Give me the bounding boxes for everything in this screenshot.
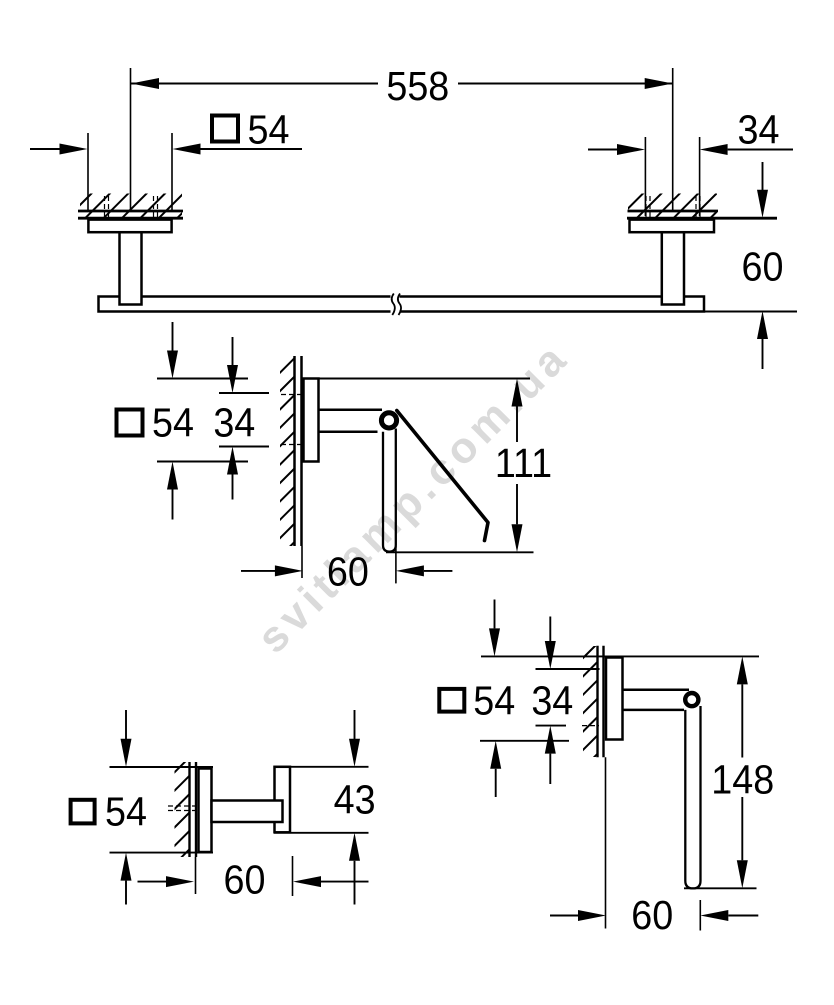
down arrow right (354, 710, 356, 739)
towel bar (99, 297, 705, 312)
cover diagonal (397, 411, 488, 541)
dim 558 extension line right (672, 68, 674, 211)
ref line top left (110, 766, 214, 768)
stem (212, 801, 283, 823)
arm top line (623, 689, 690, 692)
ref line top right (111 top) (318, 378, 530, 380)
up arrow 34 (545, 726, 556, 754)
dim 60 (138, 881, 167, 883)
svg-text:60: 60 (631, 893, 673, 939)
wall hatching (280, 356, 295, 546)
right post (662, 232, 684, 304)
wall extension down (301, 546, 303, 578)
square symbol 54 hook (71, 800, 95, 824)
bar break symbol (391, 294, 402, 316)
left post (120, 232, 142, 304)
dim 558 left arrowhead (131, 78, 159, 89)
roll holder bar (383, 429, 396, 552)
ref line top left (157, 378, 248, 380)
dim 54 vertical (172, 322, 174, 351)
wall line outer (596, 646, 598, 758)
svg-text:54: 54 (473, 678, 515, 724)
wall hatching left (80, 194, 182, 218)
hook right edge extension (292, 856, 294, 896)
svg-text:54: 54 (152, 400, 194, 446)
dim 34 vertical (232, 337, 234, 366)
wall hatching right (628, 194, 717, 218)
bar bottom extension to 60 dim (704, 311, 797, 313)
wall screw dashes left (104, 196, 106, 223)
svg-text:43: 43 (334, 777, 376, 823)
wall line inner (195, 762, 197, 857)
wall hatching (583, 646, 598, 757)
dim 34 right: tails + arrowheads (588, 149, 617, 151)
svg-text:54: 54 (105, 789, 147, 835)
ref line bottom (684, 887, 757, 889)
left wall plate (88, 220, 171, 233)
dim 60 (241, 570, 275, 572)
ref line top (481, 655, 759, 657)
arm bottom line (318, 431, 378, 434)
svg-text:34: 34 (213, 400, 255, 446)
dim 54 extension lines (87, 133, 89, 211)
screw hidden dashes (281, 394, 303, 396)
pivot ring (685, 693, 698, 706)
arm bottom line (623, 709, 685, 712)
svg-text:148: 148 (711, 757, 774, 803)
square symbol 54 middle (117, 410, 143, 436)
bar extension down (395, 547, 397, 584)
up arrow 54 (490, 741, 501, 769)
dim 60 right vertical (762, 162, 764, 190)
wall plate (606, 658, 623, 740)
dim 148 vertical (737, 656, 748, 684)
ref line 34 top (536, 668, 600, 670)
wall extension below hook (195, 857, 197, 894)
wall line inner (602, 646, 604, 758)
wall plate (304, 379, 319, 462)
ref line top right (274, 766, 369, 768)
svg-text:60: 60 (742, 244, 784, 290)
svg-text:34: 34 (531, 678, 573, 724)
down arrow 54 (494, 600, 496, 629)
right wall plate (630, 220, 715, 233)
hook body (275, 767, 291, 833)
dim 558 line (131, 83, 378, 85)
dim 60 (550, 915, 579, 917)
svg-text:111: 111 (495, 441, 552, 487)
ref line 111 bottom (386, 551, 534, 553)
svg-text:60: 60 (327, 549, 369, 595)
ref line 34 top (219, 392, 269, 394)
dim 54 left: tail + arrowheads (30, 148, 60, 150)
up arrow right (349, 833, 360, 861)
wall hatching (175, 762, 190, 857)
ref line bottom right (274, 832, 369, 834)
ref line 34 bottom (219, 446, 269, 448)
svg-text:558: 558 (386, 64, 449, 110)
ref line bottom left (110, 852, 214, 854)
up arrow left (121, 853, 132, 881)
wall line left lower (78, 217, 183, 220)
dim 111 vertical (512, 379, 523, 407)
wall line inner (300, 356, 303, 546)
roll holder bar (685, 706, 700, 888)
screw hidden dashes (168, 805, 197, 807)
bar extension (699, 900, 701, 931)
square symbol 54 bottom right (439, 689, 464, 712)
down arrow left (125, 710, 127, 739)
down arrow 34 (549, 617, 551, 642)
svg-text:54: 54 (248, 107, 290, 153)
wall line outer (188, 762, 190, 857)
svg-text:34: 34 (738, 107, 780, 153)
ref line 54 bottom (480, 740, 569, 742)
dim 34 extension lines (644, 137, 646, 216)
wall extension down (605, 757, 607, 928)
wall line right upper (628, 210, 719, 213)
svg-text:60: 60 (224, 857, 266, 903)
square symbol 54 top (212, 116, 238, 142)
arm top line (318, 409, 382, 412)
wall plate (199, 769, 212, 853)
wall line right lower (extends to 60 dim) (627, 217, 777, 220)
ref line 54 bottom (157, 461, 248, 463)
wall line left upper (78, 210, 183, 213)
pivot ring (381, 413, 396, 428)
dim 558 right arrowhead (645, 78, 673, 89)
dim 558 extension line left (130, 68, 132, 211)
wall line outer (293, 356, 296, 546)
wall screw dashes right (645, 196, 647, 223)
ref line 34 bottom (536, 725, 567, 727)
